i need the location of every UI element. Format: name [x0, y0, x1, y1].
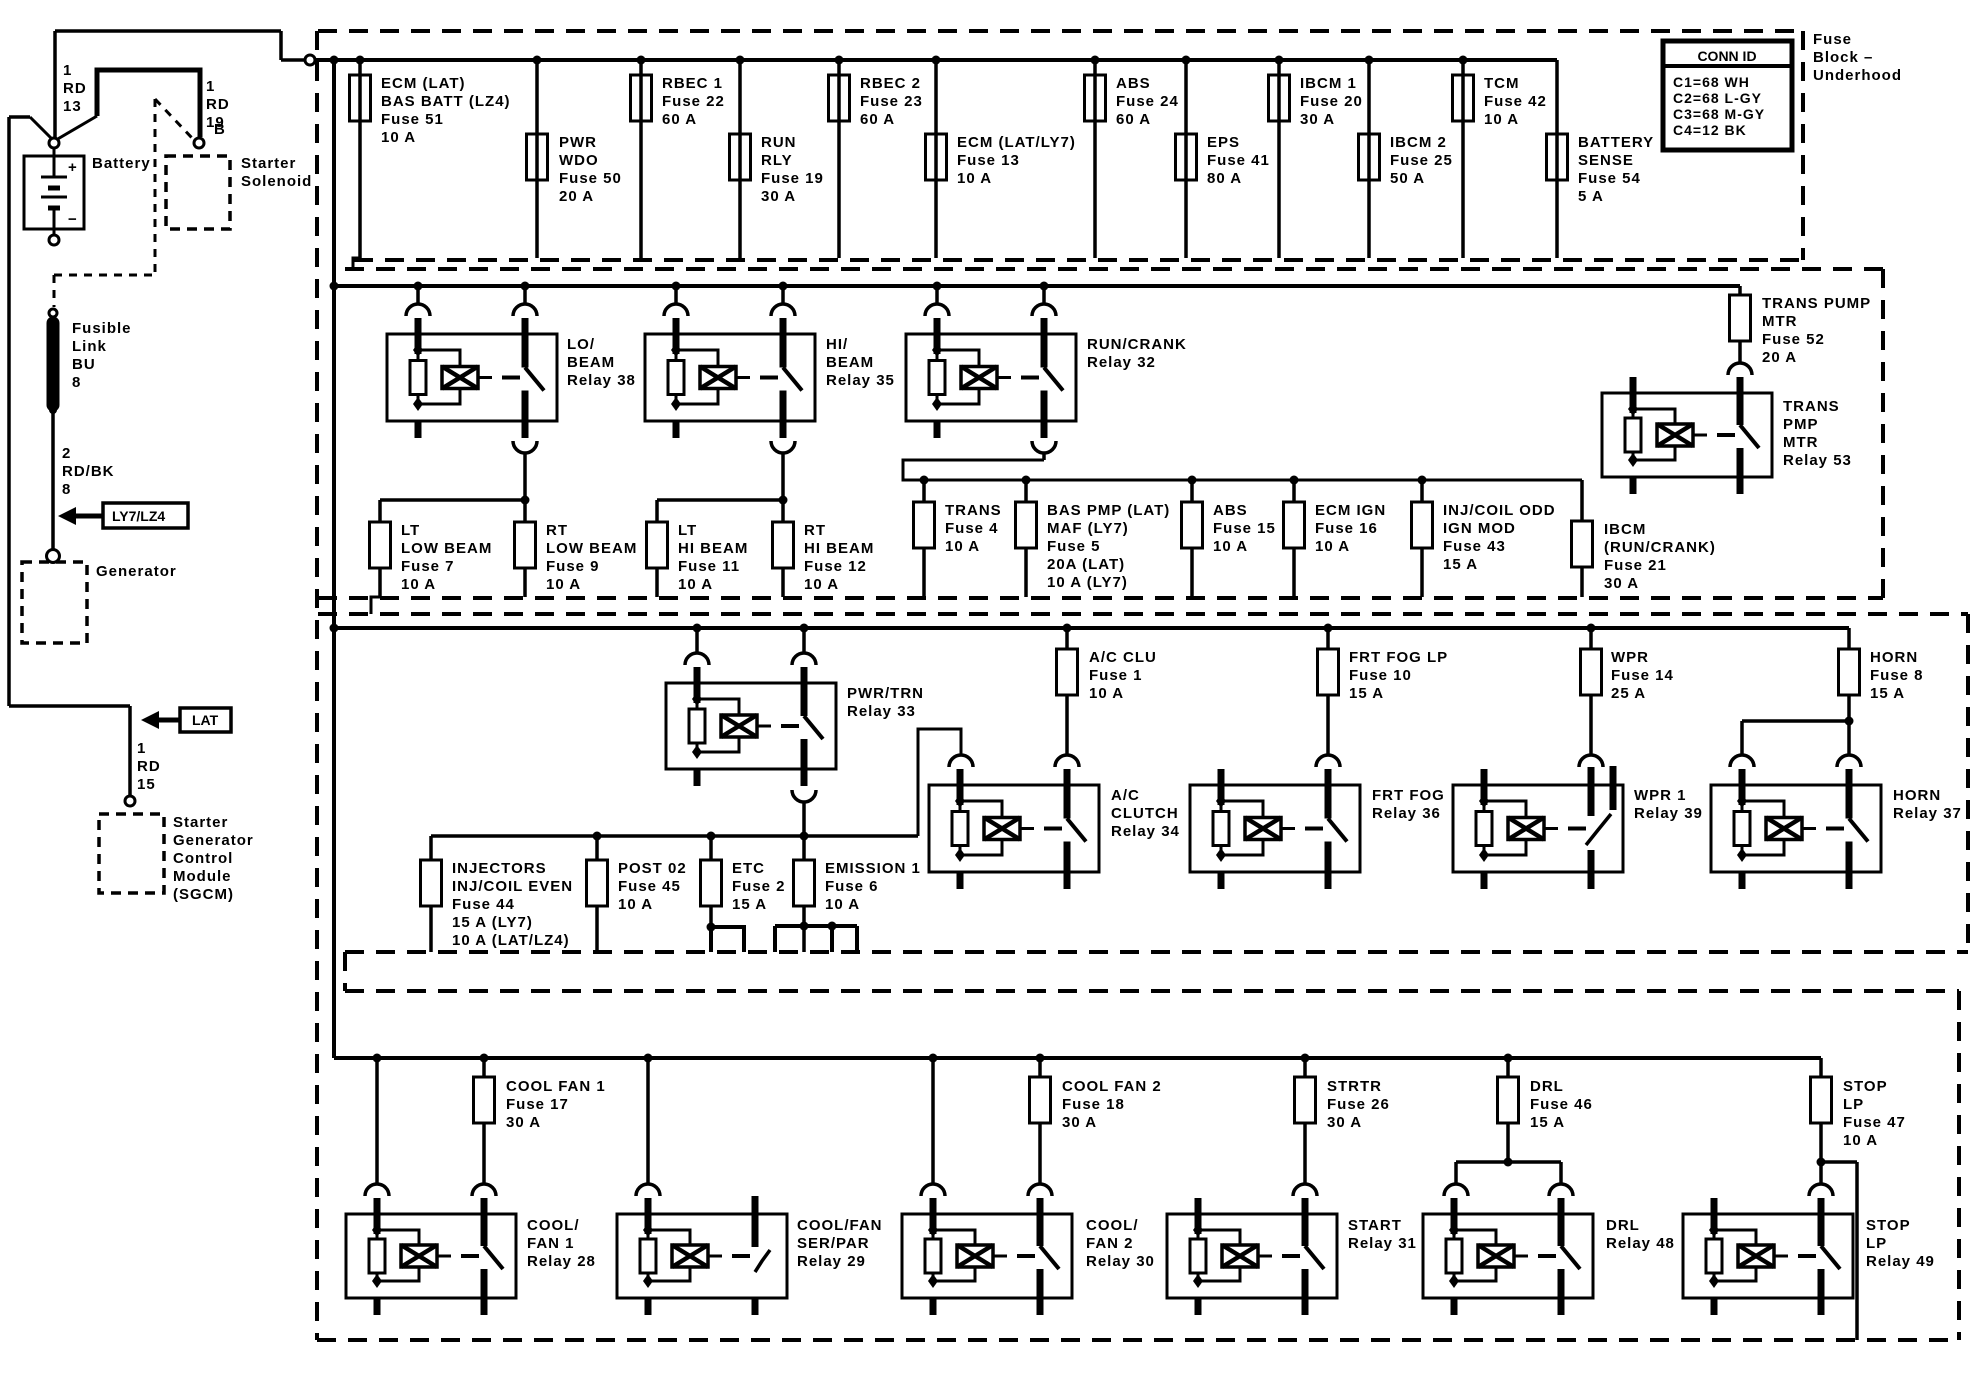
svg-text:INJ/COIL EVEN: INJ/COIL EVEN	[452, 878, 573, 895]
svg-text:FRT FOG: FRT FOG	[1372, 787, 1445, 804]
relay WPR 1 Relay 39	[1453, 766, 1623, 889]
svg-text:Fuse 50: Fuse 50	[559, 170, 622, 187]
label Relay 29	[797, 1217, 883, 1270]
svg-text:HORN: HORN	[1893, 787, 1941, 804]
svg-text:13: 13	[63, 98, 82, 115]
svg-text:TCM: TCM	[1484, 75, 1520, 92]
svg-text:A/C: A/C	[1111, 787, 1140, 804]
svg-text:Fuse 10: Fuse 10	[1349, 667, 1412, 684]
wire from battery to fuse block (top)	[55, 31, 305, 60]
fuse 52 TRANS PUMP MTR	[1730, 286, 1872, 366]
relay 33 feed wires	[685, 624, 816, 666]
wire to SGCM	[9, 706, 130, 796]
relay 53 input connector	[1728, 363, 1752, 375]
svg-text:Fuse 1: Fuse 1	[1089, 667, 1143, 684]
svg-text:2: 2	[62, 445, 71, 462]
svg-text:ECM IGN: ECM IGN	[1315, 502, 1386, 519]
fuse 6 splice legs	[775, 922, 857, 953]
relay 34 switch connector	[1055, 755, 1079, 767]
svg-text:RD/BK: RD/BK	[62, 463, 115, 480]
svg-text:10 A (LAT/LZ4): 10 A (LAT/LZ4)	[452, 932, 570, 949]
bus section 2	[330, 282, 1741, 291]
fuse 11 LT HI BEAM	[647, 522, 749, 597]
drl relay feed split	[1456, 1158, 1561, 1185]
fusible link BU 8	[49, 323, 57, 414]
fuse 12 RT HI BEAM	[773, 500, 875, 597]
svg-text:STOP: STOP	[1843, 1078, 1888, 1095]
svg-text:10 A: 10 A	[618, 896, 653, 913]
battery positive terminal circle	[49, 138, 59, 148]
svg-text:RUN/CRANK: RUN/CRANK	[1087, 336, 1187, 353]
svg-text:Fuse 52: Fuse 52	[1762, 331, 1825, 348]
wire diagonal from left branch to battery	[9, 117, 53, 140]
fuse 16 ECM IGN	[1284, 476, 1387, 598]
svg-text:20 A: 20 A	[1762, 349, 1797, 366]
svg-text:Link: Link	[72, 338, 107, 355]
svg-text:Fuse 21: Fuse 21	[1604, 557, 1667, 574]
fuse 21 IBCM RUN/CRANK	[1572, 521, 1716, 597]
fuse 6 EMISSION 1	[794, 832, 921, 953]
svg-text:Fuse 5: Fuse 5	[1047, 538, 1101, 555]
relay 36 switch connector	[1316, 755, 1340, 767]
relay 28 feed wire	[373, 1054, 382, 1185]
relay HORN Relay 37	[1711, 769, 1881, 889]
svg-text:Relay 37: Relay 37	[1893, 805, 1962, 822]
starter solenoid switch dashed wire	[155, 99, 193, 275]
svg-text:INJECTORS: INJECTORS	[452, 860, 547, 877]
svg-text:15 A: 15 A	[1870, 685, 1905, 702]
svg-text:Fuse 19: Fuse 19	[761, 170, 824, 187]
svg-text:15 A: 15 A	[1530, 1114, 1565, 1131]
relay HI/BEAM Relay 35	[645, 318, 815, 438]
svg-text:PWR/TRN: PWR/TRN	[847, 685, 924, 702]
fuse 2 splice legs	[707, 923, 745, 953]
relay RUN/CRANK Relay 32	[906, 318, 1076, 438]
bus section 3	[330, 624, 1850, 633]
svg-text:C3=68 M-GY: C3=68 M-GY	[1673, 106, 1765, 122]
svg-text:Fuse: Fuse	[1813, 31, 1852, 48]
svg-text:Relay 28: Relay 28	[527, 1253, 596, 1270]
svg-text:PWR: PWR	[559, 134, 597, 151]
svg-text:C1=68 WH: C1=68 WH	[1673, 74, 1750, 90]
svg-text:BU: BU	[72, 356, 96, 373]
svg-text:RD: RD	[137, 758, 161, 775]
svg-text:LT: LT	[401, 522, 420, 539]
fuse 13 ECM (LAT/LY7)	[926, 56, 1076, 259]
relay 35 output connector	[771, 441, 795, 500]
svg-text:Fuse 26: Fuse 26	[1327, 1096, 1390, 1113]
CONN ID table	[1663, 41, 1792, 150]
low beam fuse feed	[380, 496, 530, 523]
relay 34 coil connector	[949, 755, 973, 767]
label 2 RD/BK 8	[62, 445, 115, 498]
svg-text:LT: LT	[678, 522, 697, 539]
generator terminal circle	[47, 550, 60, 563]
label Fusible Link BU 8	[72, 320, 132, 391]
fuse 4 TRANS	[914, 476, 1002, 598]
relay 35 feed wires	[664, 282, 795, 317]
svg-text:COOL/: COOL/	[527, 1217, 580, 1234]
svg-text:STRTR: STRTR	[1327, 1078, 1382, 1095]
svg-text:WDO: WDO	[559, 152, 599, 169]
svg-text:BATTERY: BATTERY	[1578, 134, 1654, 151]
svg-text:Fuse 43: Fuse 43	[1443, 538, 1506, 555]
svg-text:IBCM: IBCM	[1604, 521, 1646, 538]
svg-text:HI/: HI/	[826, 336, 848, 353]
svg-text:EMISSION 1: EMISSION 1	[825, 860, 921, 877]
run/crank fuse feed	[903, 460, 1582, 521]
label 1 RD 13	[63, 62, 87, 115]
svg-text:Fuse 22: Fuse 22	[662, 93, 725, 110]
svg-text:Relay 39: Relay 39	[1634, 805, 1703, 822]
svg-text:CLUTCH: CLUTCH	[1111, 805, 1179, 822]
label B	[214, 121, 226, 138]
svg-text:FAN 1: FAN 1	[527, 1235, 575, 1252]
svg-text:10 A: 10 A	[546, 576, 581, 593]
relay COOL/FAN 1 Relay 28	[346, 1198, 516, 1315]
svg-text:BEAM: BEAM	[826, 354, 874, 371]
svg-text:ETC: ETC	[732, 860, 765, 877]
svg-text:Relay 53: Relay 53	[1783, 452, 1852, 469]
svg-text:Fuse 46: Fuse 46	[1530, 1096, 1593, 1113]
svg-text:EPS: EPS	[1207, 134, 1240, 151]
fuse 14 WPR	[1581, 624, 1674, 756]
svg-text:Starter: Starter	[241, 155, 296, 172]
relay LO/BEAM Relay 38	[387, 318, 557, 438]
LAT flag	[141, 708, 231, 732]
relay 39 switch connector	[1579, 755, 1603, 767]
svg-text:Fuse 14: Fuse 14	[1611, 667, 1674, 684]
relay 31 connector	[1293, 1184, 1317, 1196]
relay COOL/FAN SER/PAR Relay 29	[617, 1196, 787, 1315]
svg-text:Starter: Starter	[173, 814, 228, 831]
svg-text:10 A: 10 A	[401, 576, 436, 593]
svg-text:30 A: 30 A	[1327, 1114, 1362, 1131]
pwr/trn fuse feed	[431, 729, 961, 860]
svg-text:Relay 38: Relay 38	[567, 372, 636, 389]
svg-text:Relay 30: Relay 30	[1086, 1253, 1155, 1270]
svg-text:COOL FAN 1: COOL FAN 1	[506, 1078, 606, 1095]
dashed wire solenoid to fusible link	[54, 275, 155, 307]
svg-text:20 A: 20 A	[559, 188, 594, 205]
svg-text:RBEC 2: RBEC 2	[860, 75, 921, 92]
fuse 7 LT LOW BEAM	[370, 522, 493, 614]
svg-text:COOL/: COOL/	[1086, 1217, 1139, 1234]
svg-text:DRL: DRL	[1606, 1217, 1640, 1234]
svg-text:RBEC 1: RBEC 1	[662, 75, 723, 92]
svg-text:Relay 35: Relay 35	[826, 372, 895, 389]
relay A/C CLUTCH Relay 34	[929, 769, 1099, 889]
svg-text:Fuse 47: Fuse 47	[1843, 1114, 1906, 1131]
relay FRT FOG Relay 36	[1190, 769, 1360, 889]
relay 29 feed wire	[644, 1054, 653, 1185]
label Generator	[96, 563, 177, 580]
fuse 2 ETC	[701, 832, 786, 953]
svg-text:FAN 2: FAN 2	[1086, 1235, 1134, 1252]
svg-text:WPR 1: WPR 1	[1634, 787, 1687, 804]
relay COOL/FAN 2 Relay 30	[902, 1198, 1072, 1315]
fuse 42 TCM	[1453, 56, 1547, 259]
svg-text:LP: LP	[1843, 1096, 1864, 1113]
svg-text:Module: Module	[173, 868, 232, 885]
svg-text:Relay 32: Relay 32	[1087, 354, 1156, 371]
label Relay 28	[527, 1217, 596, 1270]
generator box	[22, 562, 87, 643]
fuse 26 STRTR	[1295, 1054, 1390, 1185]
fuse 1 A/C CLU	[1057, 624, 1157, 756]
left vertical bus	[332, 60, 336, 1058]
svg-text:A/C CLU: A/C CLU	[1089, 649, 1157, 666]
label Relay 49	[1866, 1217, 1935, 1270]
svg-text:LOW BEAM: LOW BEAM	[401, 540, 492, 557]
svg-text:10 A: 10 A	[804, 576, 839, 593]
label Relay 39	[1634, 787, 1703, 822]
fuse block section 1 border	[318, 31, 1803, 260]
wire left branch down to generator circuit	[7, 117, 11, 706]
fuse 54 BATTERY	[1547, 60, 1655, 258]
fuse 50 PWR	[527, 56, 622, 259]
relay 32 output connector	[1032, 441, 1056, 460]
svg-text:Fuse 4: Fuse 4	[945, 520, 999, 537]
svg-text:Fuse 54: Fuse 54	[1578, 170, 1641, 187]
bus battery feed (section 1)	[315, 58, 1557, 62]
fuse 22 RBEC 1	[631, 56, 725, 259]
svg-text:10 A: 10 A	[1843, 1132, 1878, 1149]
svg-text:Fuse 6: Fuse 6	[825, 878, 879, 895]
svg-text:30 A: 30 A	[506, 1114, 541, 1131]
svg-text:Control: Control	[173, 850, 233, 867]
svg-text:TRANS: TRANS	[945, 502, 1002, 519]
wire 1 RD 13 battery drop	[53, 31, 57, 140]
svg-text:Fuse 18: Fuse 18	[1062, 1096, 1125, 1113]
svg-text:SER/PAR: SER/PAR	[797, 1235, 870, 1252]
svg-text:10 A: 10 A	[1484, 111, 1519, 128]
relay TRANS PMP MTR Relay 53	[1602, 377, 1772, 494]
fusible link top circle	[49, 309, 57, 317]
svg-text:Fuse 15: Fuse 15	[1213, 520, 1276, 537]
fuse 47 STOP LP	[1811, 1058, 1906, 1162]
svg-text:LAT: LAT	[192, 712, 219, 728]
label Fuse Block - Underhood	[1813, 31, 1902, 84]
svg-text:ECM (LAT/LY7): ECM (LAT/LY7)	[957, 134, 1076, 151]
svg-text:15 A (LY7): 15 A (LY7)	[452, 914, 533, 931]
svg-text:Solenoid: Solenoid	[241, 173, 312, 190]
svg-text:10 A: 10 A	[678, 576, 713, 593]
svg-text:POST 02: POST 02	[618, 860, 687, 877]
horn relay feed split	[1742, 717, 1854, 756]
svg-text:MTR: MTR	[1783, 434, 1819, 451]
svg-text:FRT FOG LP: FRT FOG LP	[1349, 649, 1448, 666]
label Relay 34	[1111, 787, 1180, 840]
fuse 8 HORN	[1839, 628, 1924, 721]
svg-text:HI BEAM: HI BEAM	[804, 540, 874, 557]
label Relay 48	[1606, 1217, 1675, 1252]
hi beam fuse feed	[657, 496, 788, 523]
fuse 24 ABS	[1085, 56, 1179, 259]
svg-text:INJ/COIL ODD: INJ/COIL ODD	[1443, 502, 1556, 519]
svg-text:PMP: PMP	[1783, 416, 1819, 433]
relay STOP LP Relay 49	[1683, 1198, 1853, 1315]
SGCM box	[99, 814, 164, 893]
svg-text:Fuse 9: Fuse 9	[546, 558, 600, 575]
fuse 23 RBEC 2	[829, 56, 923, 259]
svg-text:Fuse 8: Fuse 8	[1870, 667, 1924, 684]
svg-text:ABS: ABS	[1116, 75, 1151, 92]
svg-text:Fuse 2: Fuse 2	[732, 878, 786, 895]
svg-text:(SGCM): (SGCM)	[173, 886, 234, 903]
relay 30 connectors	[921, 1184, 1052, 1196]
fuse 19 RUN	[730, 56, 824, 259]
svg-text:COOL/FAN: COOL/FAN	[797, 1217, 883, 1234]
fuse 18 COOL FAN 2	[1030, 1054, 1162, 1185]
svg-text:Fuse 51: Fuse 51	[381, 111, 444, 128]
fuse 15 ABS	[1182, 476, 1276, 598]
svg-text:TRANS PUMP: TRANS PUMP	[1762, 295, 1871, 312]
label Relay 32	[1087, 336, 1187, 371]
SGCM terminal circle	[125, 796, 135, 806]
svg-text:RD: RD	[63, 80, 87, 97]
stop lamp branch	[1817, 1158, 1858, 1341]
svg-text:Relay 49: Relay 49	[1866, 1253, 1935, 1270]
relay 38 output connector	[513, 441, 537, 500]
svg-text:Relay 34: Relay 34	[1111, 823, 1180, 840]
label 1 RD 15	[137, 740, 161, 793]
label Relay 30	[1086, 1217, 1155, 1270]
svg-text:Battery: Battery	[92, 155, 151, 172]
svg-text:RT: RT	[546, 522, 568, 539]
svg-text:5 A: 5 A	[1578, 188, 1604, 205]
svg-text:10 A (LY7): 10 A (LY7)	[1047, 574, 1128, 591]
svg-text:1: 1	[63, 62, 72, 79]
fuse 10 FRT FOG LP	[1318, 624, 1449, 756]
relay 30 feed wire	[929, 1054, 938, 1185]
relay DRL Relay 48	[1423, 1198, 1593, 1315]
svg-text:Fuse 24: Fuse 24	[1116, 93, 1179, 110]
svg-text:30 A: 30 A	[1300, 111, 1335, 128]
svg-text:Fuse 12: Fuse 12	[804, 558, 867, 575]
svg-text:Generator: Generator	[96, 563, 177, 580]
svg-text:CONN ID: CONN ID	[1697, 48, 1756, 64]
label 1 RD 19	[206, 78, 230, 131]
svg-text:15 A: 15 A	[1349, 685, 1384, 702]
svg-text:60 A: 60 A	[662, 111, 697, 128]
svg-text:20A (LAT): 20A (LAT)	[1047, 556, 1125, 573]
wire 1 RD 19 to starter solenoid B	[56, 70, 200, 140]
label Relay 37	[1893, 787, 1962, 822]
svg-text:8: 8	[62, 481, 71, 498]
svg-text:BEAM: BEAM	[567, 354, 615, 371]
relay 38 feed wires	[406, 282, 537, 317]
fuse 20 IBCM 1	[1269, 56, 1363, 259]
terminal circle at fuse block feed	[305, 55, 315, 65]
svg-text:LO/: LO/	[567, 336, 595, 353]
svg-text:HI BEAM: HI BEAM	[678, 540, 748, 557]
relay 32 feed wires	[925, 282, 1056, 317]
junction dot left bus top	[330, 56, 339, 65]
svg-text:10 A: 10 A	[825, 896, 860, 913]
svg-text:60 A: 60 A	[1116, 111, 1151, 128]
svg-text:DRL: DRL	[1530, 1078, 1564, 1095]
fuse 5 BAS PMP/MAF	[1016, 476, 1171, 598]
svg-text:8: 8	[72, 374, 81, 391]
svg-text:Block –: Block –	[1813, 49, 1873, 66]
label Relay 33	[847, 685, 924, 720]
relay 28 connectors	[365, 1184, 496, 1196]
svg-text:Relay 29: Relay 29	[797, 1253, 866, 1270]
bus section 4	[334, 1056, 1821, 1060]
svg-text:15: 15	[137, 776, 156, 793]
relay PWR/TRN Relay 33	[666, 667, 836, 786]
relay 48 connectors	[1444, 1184, 1573, 1196]
svg-text:Fuse 13: Fuse 13	[957, 152, 1020, 169]
svg-text:LY7/LZ4: LY7/LZ4	[112, 508, 165, 524]
svg-text:60 A: 60 A	[860, 111, 895, 128]
svg-text:STOP: STOP	[1866, 1217, 1911, 1234]
svg-text:1: 1	[137, 740, 146, 757]
svg-text:HORN: HORN	[1870, 649, 1918, 666]
svg-text:ABS: ABS	[1213, 502, 1248, 519]
fuse 44 INJECTORS	[421, 860, 574, 952]
svg-text:C2=68 L-GY: C2=68 L-GY	[1673, 90, 1762, 106]
svg-text:15 A: 15 A	[1443, 556, 1478, 573]
svg-text:10 A: 10 A	[1315, 538, 1350, 555]
svg-text:80 A: 80 A	[1207, 170, 1242, 187]
svg-text:SENSE: SENSE	[1578, 152, 1634, 169]
svg-text:RD: RD	[206, 96, 230, 113]
fuse 25 IBCM 2	[1359, 56, 1453, 259]
svg-text:Generator: Generator	[173, 832, 254, 849]
label Relay 31	[1348, 1217, 1417, 1252]
label Relay 38	[567, 336, 636, 389]
svg-text:Fuse 23: Fuse 23	[860, 93, 923, 110]
svg-text:+: +	[68, 159, 77, 176]
svg-text:50 A: 50 A	[1390, 170, 1425, 187]
relay 33 output connector	[792, 790, 816, 836]
svg-text:10 A: 10 A	[957, 170, 992, 187]
svg-text:10 A: 10 A	[1089, 685, 1124, 702]
svg-text:RLY: RLY	[761, 152, 793, 169]
svg-text:LOW BEAM: LOW BEAM	[546, 540, 637, 557]
svg-text:10 A: 10 A	[945, 538, 980, 555]
svg-text:Fuse 41: Fuse 41	[1207, 152, 1270, 169]
svg-text:Fuse 45: Fuse 45	[618, 878, 681, 895]
relay 49 connector	[1809, 1162, 1833, 1196]
svg-text:ECM (LAT): ECM (LAT)	[381, 75, 466, 92]
label Starter Generator Control Module (SGCM)	[173, 814, 254, 903]
svg-text:LP: LP	[1866, 1235, 1887, 1252]
svg-text:Fuse 16: Fuse 16	[1315, 520, 1378, 537]
svg-text:IBCM 1: IBCM 1	[1300, 75, 1357, 92]
LY7/LZ4 flag	[58, 503, 188, 528]
fuse block section 3 border	[318, 614, 1968, 991]
relay 37 connectors	[1730, 755, 1861, 767]
relay 29 connector	[636, 1184, 660, 1196]
svg-text:(RUN/CRANK): (RUN/CRANK)	[1604, 539, 1716, 556]
fuse 43 INJ/COIL ODD	[1412, 476, 1556, 598]
svg-text:30 A: 30 A	[1062, 1114, 1097, 1131]
svg-text:C4=12 BK: C4=12 BK	[1673, 122, 1747, 138]
svg-text:MTR: MTR	[1762, 313, 1798, 330]
svg-text:WPR: WPR	[1611, 649, 1649, 666]
relay START Relay 31	[1167, 1198, 1337, 1315]
fuse 41 EPS	[1176, 56, 1270, 259]
fuse 45 POST 02	[587, 832, 687, 953]
svg-text:Fusible: Fusible	[72, 320, 132, 337]
svg-text:B: B	[214, 121, 226, 138]
svg-text:TRANS: TRANS	[1783, 398, 1840, 415]
svg-text:BAS PMP (LAT): BAS PMP (LAT)	[1047, 502, 1170, 519]
fuse 46 DRL	[1498, 1054, 1593, 1163]
